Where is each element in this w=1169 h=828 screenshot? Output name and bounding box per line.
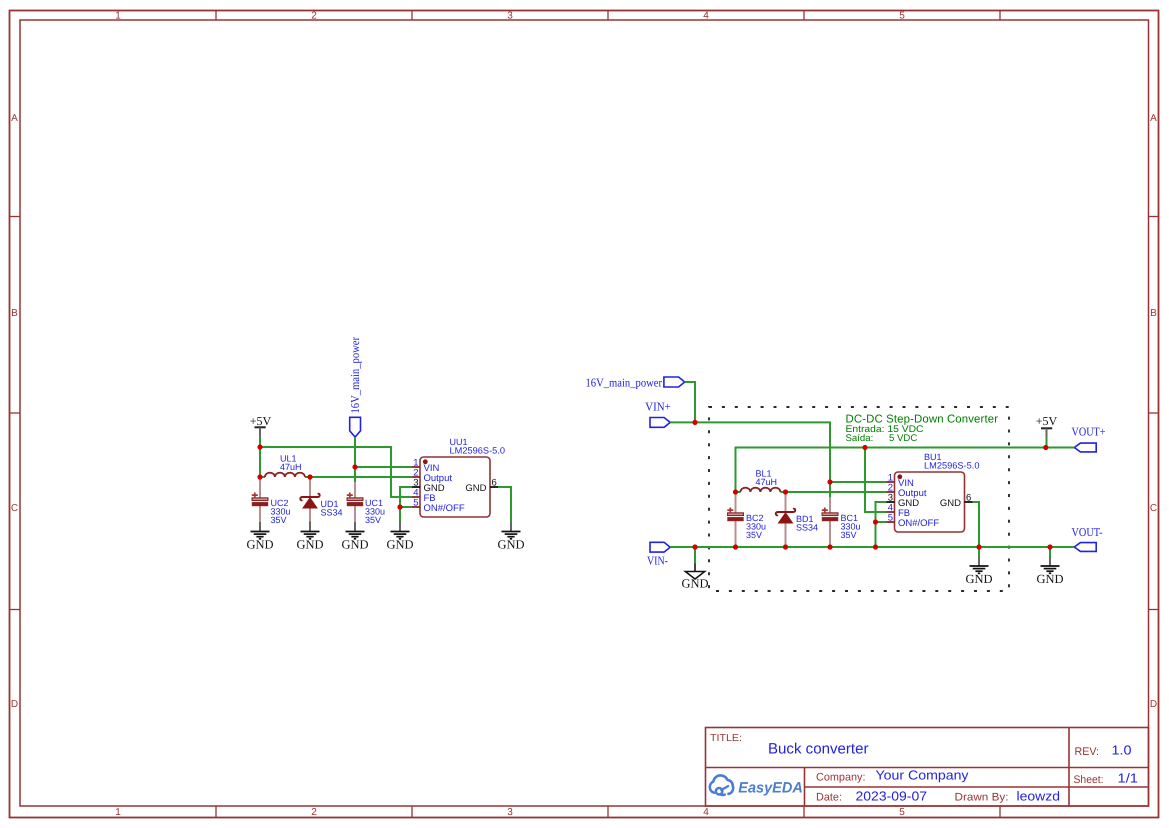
- wire +5V net: power stub to FB pin, branch to inductor: [260, 437, 412, 497]
- inductor BL1: [736, 491, 741, 493]
- diode UD1: [300, 478, 319, 522]
- ground symbol (under UU1 pin5): [391, 532, 410, 539]
- svg-text:SS34: SS34: [321, 508, 343, 518]
- svg-text:+5V: +5V: [250, 414, 272, 428]
- ground stub wires (left circuit): [260, 522, 511, 532]
- frame column labels top: [115, 11, 905, 22]
- svg-text:4: 4: [703, 11, 709, 22]
- svg-text:VIN-: VIN-: [647, 553, 668, 567]
- svg-text:6: 6: [966, 493, 971, 504]
- svg-text:2023-09-07: 2023-09-07: [856, 789, 928, 804]
- wire GND net at pin 6: [498, 487, 511, 522]
- svg-text:1/1: 1/1: [1118, 771, 1139, 786]
- svg-text:47uH: 47uH: [280, 462, 302, 472]
- wire +5V output net: inductor left up across to VOUT+ flag: [736, 438, 1075, 513]
- wire switch-node net: inductor right to pin 2 Output: [786, 491, 887, 493]
- net flag VIN-: [647, 542, 670, 567]
- svg-text:2: 2: [311, 11, 317, 22]
- frame column ticks top: [216, 11, 1000, 21]
- svg-text:GND: GND: [465, 483, 486, 494]
- wire GND net at pin 6 down to bottom rail: [973, 502, 980, 547]
- capacitor BC2: [727, 493, 743, 546]
- svg-text:5 VDC: 5 VDC: [889, 433, 917, 444]
- ground symbol (under UC1): [346, 532, 365, 539]
- ground symbol (under UD1): [301, 532, 320, 539]
- svg-text:LM2596S-5.0: LM2596S-5.0: [924, 461, 980, 471]
- net flag VOUT+: [1072, 424, 1106, 452]
- svg-text:35V: 35V: [841, 530, 857, 540]
- svg-text:GND: GND: [497, 537, 524, 551]
- net flag 16V_main_power (left circuit, vertical): [348, 337, 362, 437]
- svg-text:SS34: SS34: [796, 523, 818, 533]
- net flag VOUT-: [1072, 525, 1103, 551]
- svg-text:B: B: [11, 308, 18, 319]
- svg-text:4: 4: [703, 807, 709, 818]
- capacitor BC1: [822, 497, 838, 546]
- svg-text:Company:: Company:: [816, 772, 866, 784]
- svg-text:EasyEDA: EasyEDA: [738, 780, 803, 797]
- svg-text:Saída:: Saída:: [846, 433, 874, 444]
- svg-text:Buck converter: Buck converter: [768, 741, 869, 758]
- svg-text:leowzd: leowzd: [1017, 789, 1061, 804]
- label UU1 LM2596S-5.0: [450, 437, 506, 456]
- svg-text:5: 5: [888, 513, 893, 524]
- junction dots (right circuit): [692, 420, 1052, 550]
- ground symbol (under VOUT-): [1041, 566, 1060, 573]
- svg-text:VOUT+: VOUT+: [1072, 424, 1106, 438]
- label BL1 47uH: [756, 469, 778, 488]
- wire 16V net: flag to VIN+ junction: [685, 382, 695, 422]
- wire switch-node net: inductor right to pin 2 Output: [310, 476, 412, 478]
- svg-text:Your Company: Your Company: [876, 768, 970, 783]
- svg-text:REV:: REV:: [1075, 746, 1100, 758]
- svg-text:VOUT-: VOUT-: [1072, 525, 1103, 539]
- svg-text:1: 1: [115, 807, 121, 818]
- svg-text:35V: 35V: [365, 515, 381, 525]
- svg-text:GND: GND: [1036, 572, 1063, 586]
- label BD1 SS34: [796, 514, 818, 533]
- svg-text:GND: GND: [965, 572, 992, 586]
- label BU1 LM2596S-5.0: [924, 452, 980, 471]
- svg-text:D: D: [11, 699, 18, 710]
- IC UU1 LM2596S-5.0: [412, 457, 498, 517]
- power symbol +5V (right circuit): [1036, 414, 1058, 437]
- svg-text:ON#/OFF: ON#/OFF: [898, 518, 939, 529]
- label BC2 330u 35V: [746, 513, 766, 540]
- svg-text:3: 3: [507, 11, 513, 22]
- svg-text:ON#/OFF: ON#/OFF: [424, 503, 465, 514]
- label UC1 330u 35V: [365, 498, 385, 525]
- svg-text:C: C: [11, 503, 18, 514]
- svg-text:35V: 35V: [746, 530, 762, 540]
- wire GND bottom rail: VIN- flag to VOUT- flag: [670, 546, 1074, 548]
- svg-text:A: A: [1150, 113, 1157, 124]
- svg-text:GND: GND: [386, 537, 413, 551]
- wire GND net: pin 3 to pin 5 and down to ground: [400, 487, 412, 522]
- svg-text:Drawn By:: Drawn By:: [955, 792, 1009, 804]
- svg-text:A: A: [11, 113, 18, 124]
- net flag 16V_main_power (right circuit): [586, 375, 685, 389]
- svg-text:5: 5: [899, 807, 905, 818]
- svg-text:47uH: 47uH: [756, 477, 778, 487]
- ground symbol (under UU1 pin6): [502, 532, 521, 539]
- svg-text:D: D: [1150, 699, 1157, 710]
- EasyEDA logo cloud icon: [710, 775, 733, 795]
- wire GND stubs below rail: [695, 547, 1050, 564]
- svg-text:GND: GND: [296, 537, 323, 551]
- inductor UL1: [260, 476, 265, 478]
- svg-text:16V_main_power: 16V_main_power: [348, 337, 362, 414]
- diode BD1: [776, 493, 795, 546]
- dashed enclosure DC-DC Step-Down Converter: [709, 407, 1009, 591]
- svg-text:GND: GND: [246, 537, 273, 551]
- label BC1 330u 35V: [841, 513, 861, 540]
- wire GND net: pin 3 to pin 5 and down to bottom rail: [876, 502, 887, 547]
- label UC2 330u 35V: [271, 498, 291, 525]
- junction dots (left circuit): [257, 444, 402, 509]
- svg-text:1: 1: [115, 11, 121, 22]
- ground symbol (under BU1 pin6): [970, 566, 989, 573]
- title block frame: [706, 728, 1149, 807]
- svg-text:16V_main_power: 16V_main_power: [586, 375, 663, 389]
- svg-text:Date:: Date:: [816, 792, 842, 804]
- frame row ticks left: [10, 217, 21, 610]
- capacitor UC1: [347, 482, 363, 522]
- IC BU1 LM2596S-5.0: [887, 472, 973, 532]
- svg-text:6: 6: [492, 478, 497, 489]
- svg-text:Sheet:: Sheet:: [1074, 774, 1104, 786]
- frame column ticks bottom: [216, 806, 1000, 818]
- svg-text:1.0: 1.0: [1112, 743, 1132, 758]
- ground symbol triangle style (under VIN-): [685, 564, 704, 580]
- frame row labels right: [1150, 113, 1157, 710]
- svg-text:+5V: +5V: [1036, 414, 1058, 428]
- label UD1 SS34: [321, 499, 343, 518]
- svg-text:35V: 35V: [271, 515, 287, 525]
- frame column labels bottom: [115, 807, 905, 818]
- svg-text:LM2596S-5.0: LM2596S-5.0: [450, 446, 506, 456]
- wire VIN net: VIN+ flag across to BC1 column and pin 1 VIN: [670, 422, 886, 497]
- svg-text:2: 2: [311, 807, 317, 818]
- svg-text:GND: GND: [681, 577, 708, 591]
- svg-text:TITLE:: TITLE:: [710, 733, 742, 744]
- svg-text:5: 5: [413, 498, 418, 509]
- power symbol +5V (left circuit): [250, 414, 272, 437]
- label UL1 47uH: [280, 454, 302, 473]
- svg-text:3: 3: [507, 807, 513, 818]
- net flag VIN+: [645, 400, 671, 428]
- svg-text:C: C: [1150, 503, 1157, 514]
- ground symbol (under UC2): [251, 532, 270, 539]
- svg-text:GND: GND: [341, 537, 368, 551]
- svg-text:VIN+: VIN+: [645, 400, 671, 414]
- wire 16V net: flag down to UC1 and branch to pin 1 VIN: [355, 437, 412, 482]
- svg-text:5: 5: [899, 11, 905, 22]
- frame row labels left: [11, 113, 18, 710]
- svg-text:B: B: [1150, 308, 1157, 319]
- svg-text:GND: GND: [940, 498, 961, 509]
- frame row ticks right: [1149, 217, 1159, 610]
- capacitor UC2: [252, 478, 268, 522]
- ground stub wires (right circuit): [979, 558, 1050, 567]
